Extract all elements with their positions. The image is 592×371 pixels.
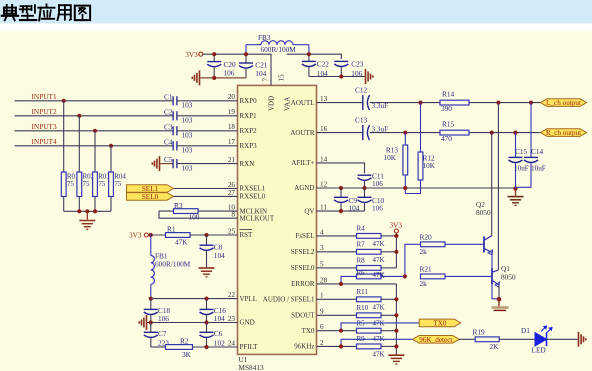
svg-text:R_ch output: R_ch output xyxy=(546,129,581,137)
wire VPLL rail xyxy=(151,298,238,300)
svg-text:TX0: TX0 xyxy=(433,320,447,328)
R7 labels xyxy=(357,241,385,264)
svg-text:SEL0: SEL0 xyxy=(142,193,159,201)
C7 labels xyxy=(158,329,169,348)
ground (LED) xyxy=(579,332,586,347)
svg-text:TX0: TX0 xyxy=(302,327,315,335)
svg-text:FsSEL: FsSEL xyxy=(295,232,314,240)
resistor R11 xyxy=(357,297,382,302)
svg-text:RXSEL1: RXSEL1 xyxy=(240,185,266,193)
svg-text:47K: 47K xyxy=(373,271,385,279)
wire SEL0 to RXSEL0 xyxy=(174,195,238,197)
ground (Q1/Q2) xyxy=(492,299,509,310)
svg-text:RST: RST xyxy=(240,231,254,239)
svg-text:C14: C14 xyxy=(531,147,544,156)
capacitor C8 xyxy=(200,235,214,267)
wire ERROR row xyxy=(317,283,397,285)
svg-text:10uF: 10uF xyxy=(514,165,529,173)
resistor R21 xyxy=(421,274,446,279)
wire pulldown bus xyxy=(64,210,111,212)
R03 labels xyxy=(98,173,110,189)
pin 7 VDD label xyxy=(261,78,275,112)
svg-text:INPUT3: INPUT3 xyxy=(32,122,57,131)
svg-text:106: 106 xyxy=(224,68,235,77)
svg-text:106: 106 xyxy=(372,204,383,213)
resistor R6 xyxy=(357,274,382,279)
wire R10 right xyxy=(381,314,396,316)
svg-text:19: 19 xyxy=(228,108,236,116)
svg-text:17: 17 xyxy=(228,138,236,146)
C23 labels xyxy=(351,60,364,78)
capacitor C14 xyxy=(517,103,539,188)
svg-text:28: 28 xyxy=(320,276,328,284)
wire pin row R10 xyxy=(317,314,357,316)
svg-text:VAA: VAA xyxy=(284,97,292,111)
junction AOUTL line xyxy=(418,101,533,105)
svg-text:47K: 47K xyxy=(373,240,385,248)
resistor R13 xyxy=(403,133,408,194)
svg-text:18: 18 xyxy=(228,123,236,131)
svg-text:C7: C7 xyxy=(158,329,167,338)
capacitor C11 xyxy=(358,175,372,188)
net label INPUT3 xyxy=(32,122,57,131)
ground (bank rail) xyxy=(388,355,404,364)
pin 18 RXP2 label xyxy=(228,123,257,135)
pin 12 AGND label xyxy=(294,180,327,192)
resistor R01 xyxy=(61,172,66,197)
svg-text:27: 27 xyxy=(228,189,236,197)
wire C4 to RXP3 xyxy=(177,145,238,147)
C13 labels xyxy=(355,116,388,134)
svg-text:R15: R15 xyxy=(442,119,455,128)
wire SEL1 to RXSEL1 xyxy=(174,188,238,190)
D1 labels xyxy=(521,326,546,355)
wire pin row R8 xyxy=(317,267,357,269)
svg-text:LED: LED xyxy=(532,345,546,354)
wire R02 bottom xyxy=(78,197,80,212)
wire INPUT3 xyxy=(15,130,174,132)
pin 6 TX0 label xyxy=(302,323,324,335)
wire AGND rail xyxy=(317,187,516,189)
wire R19 to LED xyxy=(499,338,535,340)
wire R03 bottom xyxy=(94,197,96,212)
Q1 labels xyxy=(501,264,516,281)
C8 labels xyxy=(214,243,225,261)
wire R2 to PFILT xyxy=(193,346,238,348)
svg-text:103: 103 xyxy=(182,146,193,155)
wire AOUTL to C12 xyxy=(317,102,363,104)
capacitor C12 xyxy=(363,95,370,110)
net flag SEL0 xyxy=(127,193,174,201)
ground (C15/C14) xyxy=(508,189,524,206)
resistor R20 xyxy=(421,242,446,247)
resistor R3 xyxy=(174,209,199,214)
svg-text:L_ch output: L_ch output xyxy=(546,99,581,107)
wire LED to ground xyxy=(547,338,578,340)
svg-text:75: 75 xyxy=(67,180,75,188)
svg-text:10uF: 10uF xyxy=(531,165,546,173)
C14 labels xyxy=(531,147,546,173)
svg-text:R2: R2 xyxy=(180,336,189,345)
capacitor C1 xyxy=(173,96,177,105)
junction R20/R21 node xyxy=(403,274,407,278)
capacitor C10 xyxy=(358,188,372,211)
svg-text:600R/100M: 600R/100M xyxy=(155,259,191,268)
svg-text:12: 12 xyxy=(320,180,328,188)
transistor Q1 xyxy=(492,268,499,287)
wire R5 right xyxy=(381,330,396,332)
wire R20 to Q2 base xyxy=(445,243,484,245)
capacitor C23 xyxy=(334,61,348,76)
resistor R04 xyxy=(109,172,114,197)
svg-text:RXN: RXN xyxy=(240,160,255,168)
svg-text:INPUT4: INPUT4 xyxy=(32,137,57,146)
wire INPUT4 xyxy=(15,145,174,147)
svg-text:4: 4 xyxy=(320,228,324,236)
wire input drop R03 xyxy=(94,131,96,172)
svg-text:SDOUT: SDOUT xyxy=(291,312,315,320)
svg-text:AUDIO / SFSEL1: AUDIO / SFSEL1 xyxy=(263,296,315,304)
svg-text:21: 21 xyxy=(228,156,236,164)
R6 labels xyxy=(357,269,385,279)
pin 19 RXP1 label xyxy=(228,108,257,120)
svg-text:R5: R5 xyxy=(357,320,366,328)
junction pulldown bus xyxy=(77,209,97,213)
C6 labels xyxy=(214,329,225,348)
FB3 designator xyxy=(258,33,271,42)
title band xyxy=(0,0,592,24)
wire node to R20 xyxy=(405,244,421,276)
svg-text:GND: GND xyxy=(240,319,255,327)
resistor R19 xyxy=(475,337,499,342)
svg-text:RXP3: RXP3 xyxy=(240,142,258,150)
capacitor C4 xyxy=(173,141,177,150)
svg-text:106: 106 xyxy=(372,179,383,188)
svg-text:AGND: AGND xyxy=(294,184,314,192)
svg-text:9: 9 xyxy=(320,308,324,316)
resistor R10 xyxy=(357,313,382,318)
svg-text:RXP2: RXP2 xyxy=(240,127,258,135)
wire R11 right xyxy=(381,298,396,300)
resistor R5 xyxy=(357,328,382,333)
junction AGND rail xyxy=(339,186,518,191)
junction 96K xyxy=(339,344,343,348)
pin 21 RXN label xyxy=(228,156,254,168)
svg-text:R1: R1 xyxy=(167,224,176,233)
resistor R02 xyxy=(77,172,82,197)
pin 17 RXP3 label xyxy=(228,138,257,150)
svg-text:6: 6 xyxy=(320,323,324,331)
resistor R14 xyxy=(440,100,469,105)
pin 10 MCLKIN label xyxy=(228,204,267,216)
junction TX0 xyxy=(339,329,343,333)
svg-text:16: 16 xyxy=(320,125,328,133)
C12 labels xyxy=(355,86,388,111)
svg-text:75: 75 xyxy=(83,180,91,188)
svg-text:C1: C1 xyxy=(164,92,173,101)
pin 23 GND label xyxy=(228,315,255,327)
svg-text:26: 26 xyxy=(228,181,236,189)
C10 labels xyxy=(372,196,385,213)
C9 labels xyxy=(349,196,360,213)
capacitor C6 xyxy=(200,323,214,348)
pin 3 SFSEL2 label xyxy=(291,244,324,256)
wire Q1 emitter down xyxy=(498,285,500,299)
R2 labels xyxy=(180,336,192,358)
svg-text:R6: R6 xyxy=(357,269,366,277)
svg-text:47K: 47K xyxy=(373,320,385,328)
svg-text:FB3: FB3 xyxy=(258,33,271,42)
svg-text:INPUT2: INPUT2 xyxy=(32,107,57,116)
R04 labels xyxy=(114,173,126,189)
wire QV xyxy=(317,210,365,212)
resistor R9 xyxy=(357,344,382,349)
svg-text:1: 1 xyxy=(320,292,324,300)
wire R4 right xyxy=(381,235,396,237)
net flag TX0 xyxy=(419,319,461,327)
junction dots top-left xyxy=(212,52,248,80)
R1 labels xyxy=(167,224,188,246)
wire R9 right xyxy=(381,345,396,347)
junction QV xyxy=(339,209,343,213)
wire input drop R04 xyxy=(110,146,112,172)
R9 labels xyxy=(357,335,385,358)
svg-text:600R/100M: 600R/100M xyxy=(261,45,297,54)
diode D1 LED xyxy=(535,326,552,346)
wire pin row R11 xyxy=(317,298,357,300)
wire AOUTR to C13 xyxy=(317,132,363,134)
svg-text:C5: C5 xyxy=(164,155,173,164)
svg-text:C23: C23 xyxy=(351,60,364,69)
capacitor C7 xyxy=(144,323,158,348)
wire pin row R7 xyxy=(317,251,357,253)
resistor R15 xyxy=(440,130,469,135)
svg-text:3K: 3K xyxy=(182,350,192,359)
svg-text:SFSEL2: SFSEL2 xyxy=(291,248,315,256)
pin 16 AOUTR label xyxy=(290,125,327,137)
capacitor C9 xyxy=(334,188,348,211)
svg-text:R10: R10 xyxy=(357,304,369,312)
svg-text:15: 15 xyxy=(277,74,285,82)
svg-text:25: 25 xyxy=(228,227,236,235)
Q2 labels xyxy=(476,200,491,217)
svg-text:7: 7 xyxy=(261,78,269,82)
net label INPUT1 xyxy=(32,92,57,101)
junction pullup rail xyxy=(394,234,398,254)
resistor R7 xyxy=(357,249,382,254)
capacitor C3 xyxy=(173,126,177,135)
svg-text:RXP1: RXP1 xyxy=(240,112,258,120)
wire 96K to R19 xyxy=(459,338,475,340)
R21 labels xyxy=(420,265,433,288)
svg-text:11: 11 xyxy=(320,204,327,212)
net flag SEL1 xyxy=(127,185,174,193)
junction GND rail xyxy=(149,320,209,324)
C16 labels xyxy=(214,306,227,323)
svg-text:C13: C13 xyxy=(355,116,368,125)
svg-text:QV: QV xyxy=(304,207,314,215)
wire R_ch to Q2 collector xyxy=(491,133,493,236)
wire C13 to R_ch xyxy=(370,132,541,134)
wire 96K jog xyxy=(341,339,413,346)
wire pin row R9 xyxy=(317,345,357,347)
svg-text:104: 104 xyxy=(214,251,225,260)
wire GND rail xyxy=(147,322,238,324)
capacitor C15 xyxy=(509,133,523,189)
wire C3 to RXP2 xyxy=(177,130,238,132)
wire C22/C23 ground xyxy=(309,76,365,78)
svg-text:104: 104 xyxy=(214,314,225,323)
wire input drop R01 xyxy=(63,101,65,172)
wire C1 to RXP0 xyxy=(177,100,238,102)
net flag 96K_detect xyxy=(413,336,460,344)
pin 8 MCLKOUT label xyxy=(231,211,274,223)
svg-text:AOUTL: AOUTL xyxy=(291,99,315,107)
wire R3 to MCLKIN xyxy=(198,210,238,212)
C3 labels xyxy=(164,122,193,139)
pin 1 AUDIO / SFSEL1 label xyxy=(263,292,324,304)
svg-text:75: 75 xyxy=(98,180,106,188)
FB3 value 600R/100M xyxy=(261,45,297,54)
svg-text:20: 20 xyxy=(228,93,236,101)
svg-text:8050: 8050 xyxy=(476,208,491,217)
resistor R2 xyxy=(166,345,193,350)
R01 labels xyxy=(67,173,79,189)
svg-text:47K: 47K xyxy=(373,351,385,359)
wire L_ch to Q1 collector xyxy=(497,103,499,270)
wire Q2 emitter down xyxy=(492,253,499,299)
R8 labels xyxy=(357,257,385,280)
svg-text:8: 8 xyxy=(231,211,235,219)
pin 25 RST label xyxy=(228,227,253,239)
C20 labels xyxy=(224,60,237,78)
resistor R8 xyxy=(357,266,382,271)
capacitor C13 xyxy=(363,125,370,140)
pin 2 96KHz label xyxy=(294,339,324,351)
wire pin row R4 xyxy=(317,235,357,237)
svg-text:3.3uF: 3.3uF xyxy=(372,102,389,110)
wire R6 to node xyxy=(381,275,405,277)
svg-text:R21: R21 xyxy=(420,265,433,274)
svg-text:102: 102 xyxy=(214,339,225,348)
svg-text:C12: C12 xyxy=(355,86,368,95)
svg-text:R7: R7 xyxy=(357,241,366,249)
svg-text:75: 75 xyxy=(114,180,122,188)
junction AOUTR line xyxy=(403,131,517,135)
junction INPUT4 xyxy=(109,144,113,148)
wire 3V3 pullup rail xyxy=(395,233,397,268)
pin 20 RXP0 label xyxy=(228,93,257,105)
svg-text:2k: 2k xyxy=(420,247,428,256)
U1 value MS8413 xyxy=(239,363,264,371)
svg-text:3V3: 3V3 xyxy=(390,220,403,229)
wire R7 right xyxy=(381,251,396,253)
svg-text:10K: 10K xyxy=(383,153,396,162)
resistor R1 xyxy=(166,233,191,238)
ground (C22/C23) xyxy=(366,69,373,84)
svg-text:14: 14 xyxy=(320,155,328,163)
net label INPUT2 xyxy=(32,107,57,116)
svg-text:47K: 47K xyxy=(175,238,188,247)
ground (C5) xyxy=(152,156,159,171)
wire input drop R02 xyxy=(78,116,80,172)
junction INPUT3 xyxy=(93,129,97,133)
node 3V3 (RST) xyxy=(129,231,148,240)
svg-text:106: 106 xyxy=(158,314,169,323)
svg-text:ERROR: ERROR xyxy=(291,280,315,288)
R4 labels xyxy=(357,225,385,248)
junction INPUT2 xyxy=(77,114,81,118)
svg-text:3: 3 xyxy=(320,244,324,252)
capacitor C18 xyxy=(144,299,158,323)
svg-text:103: 103 xyxy=(182,101,193,110)
C5 labels xyxy=(164,155,193,172)
svg-text:MS8413: MS8413 xyxy=(239,363,264,371)
pin 9 SDOUT label xyxy=(291,308,324,320)
svg-text:8050: 8050 xyxy=(501,273,516,282)
svg-text:R8: R8 xyxy=(357,257,366,265)
svg-text:100: 100 xyxy=(189,213,200,222)
wire R04 bottom xyxy=(110,197,112,212)
R19 labels xyxy=(473,328,500,351)
svg-text:390: 390 xyxy=(441,104,452,113)
ground (C20/C21) xyxy=(192,70,246,85)
capacitor C16 xyxy=(200,299,214,323)
node 3V3 (top) xyxy=(185,50,203,59)
junction VPLL rail xyxy=(149,297,209,301)
svg-text:47K: 47K xyxy=(373,256,385,264)
pin 5 SFSEL0 label xyxy=(291,260,324,272)
wire MCLKOUT loop xyxy=(159,211,238,218)
wire gnd to C5 xyxy=(160,163,173,165)
net flag R_ch output xyxy=(541,129,587,137)
R02 labels xyxy=(83,173,95,189)
svg-text:PFILT: PFILT xyxy=(240,343,259,351)
C15 labels xyxy=(514,147,529,173)
C4 labels xyxy=(164,137,193,154)
R12 labels xyxy=(423,153,436,170)
svg-text:R3: R3 xyxy=(174,201,183,210)
wire ERROR jog xyxy=(341,276,357,284)
svg-text:3V3: 3V3 xyxy=(185,50,198,59)
wire TX0 jog xyxy=(341,323,419,331)
R14 labels xyxy=(441,89,455,113)
svg-text:R11: R11 xyxy=(357,288,369,296)
wire 3V3 to R1 xyxy=(148,234,165,236)
C18 labels xyxy=(158,306,171,323)
svg-text:C6: C6 xyxy=(214,329,223,338)
svg-text:5: 5 xyxy=(320,260,324,268)
pin 14 AFILT+ label xyxy=(291,155,327,167)
capacitor C20 xyxy=(207,54,221,78)
wire pin row R5 xyxy=(317,330,357,332)
pin 26 RXSEL1 label xyxy=(228,181,266,193)
R11 labels xyxy=(357,288,385,311)
wire 3V3 rail to VDD xyxy=(203,54,271,85)
svg-text:103: 103 xyxy=(182,116,193,125)
pin 13 AOUTL label xyxy=(291,95,328,107)
svg-text:MCLKOUT: MCLKOUT xyxy=(240,214,275,222)
C21 labels xyxy=(255,61,268,79)
svg-text:104: 104 xyxy=(255,69,266,78)
svg-text:INPUT1: INPUT1 xyxy=(32,92,57,101)
wire R01 bottom xyxy=(63,197,65,212)
junction R1 line xyxy=(149,233,209,237)
ferrite bead FB3 xyxy=(246,41,309,55)
transistor Q2 xyxy=(484,236,493,255)
wire C12 to L_ch xyxy=(370,102,541,104)
capacitor C22 xyxy=(302,54,316,76)
